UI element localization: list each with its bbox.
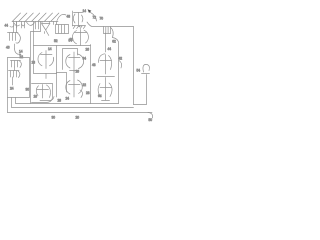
box bottom segment with curl [40,97,54,101]
svg-text:34: 34 [83,57,87,61]
damper S3 rod [42,85,44,99]
foot bar [102,100,110,102]
valve triangle [42,22,50,31]
svg-text:54: 54 [137,69,141,73]
comb C [9,71,20,78]
svg-text:54: 54 [69,39,73,43]
damper S4 left arc [66,81,70,95]
arrow 10 arc [90,12,96,21]
svg-text:72: 72 [93,16,97,20]
wires ceiling to comb A [14,22,17,33]
wire comb A down [14,44,16,49]
svg-text:16: 16 [34,95,38,99]
partition bar [70,70,79,72]
svg-text:62: 62 [112,40,116,44]
damper S0 right arc [84,30,88,43]
comb A above box [8,33,19,41]
ceiling hatch marks [13,13,59,21]
damper S5 bar [100,60,112,62]
wire ceiling to box1 [33,22,35,46]
wire [21,22,23,29]
hanger u-arc [27,22,35,25]
damper S1 left arc [38,53,42,66]
comb box 48 [56,25,69,34]
lead line for label 44 [10,26,14,28]
middle outer wire [31,22,41,104]
wire between combs [14,67,16,71]
hanger arc B [22,24,25,26]
comb C curl [18,71,20,78]
hook arc 42 [119,61,122,69]
svg-text:26: 26 [86,48,90,52]
box U3 [32,84,53,103]
hanger curl A [14,23,20,26]
svg-text:22: 22 [83,83,87,87]
svg-text:18: 18 [32,61,36,65]
damper S0 left arc [72,31,76,44]
damper S4 right arc [78,80,83,94]
box U1 [34,46,57,74]
svg-text:46: 46 [6,46,10,50]
damper S1 bar [41,54,53,56]
svg-text:50: 50 [149,118,153,122]
hook arc 62 [111,28,114,38]
hook arc 28 [80,90,83,98]
corner stub [44,32,46,34]
T bar [142,73,150,75]
comb B curl [20,61,22,68]
damper S6 right arc [109,83,112,97]
right-middle box right edge [113,38,119,104]
wire down to box [105,33,107,52]
damper S6 left arc [98,84,100,98]
damper S3 bar [37,89,49,91]
svg-text:24: 24 [10,87,14,91]
arrow 10 head [88,9,92,13]
svg-text:52: 52 [54,39,58,43]
damper S1 right arc [50,57,54,66]
svg-text:70: 70 [100,17,104,21]
svg-text:44: 44 [5,24,9,28]
bottom main line [8,112,153,114]
anchor bar with hatches [73,26,86,29]
long top wire to right corner [87,22,134,105]
damper S0 rod [80,30,82,46]
damper S4 rod [73,71,75,98]
svg-text:42: 42 [119,57,123,61]
svg-text:30: 30 [26,88,30,92]
hanging comb box on wire [104,27,111,34]
hanging comb ticks [36,22,39,30]
damper S3 right arc [47,85,51,98]
damper S0 bar [75,32,87,34]
anchor pivot blob [79,25,81,27]
left wall wire [7,58,9,113]
comb B [11,61,21,68]
pendulum mass 14 [72,11,74,26]
wire [24,22,26,29]
svg-text:64: 64 [98,94,102,98]
svg-text:28: 28 [58,99,62,103]
svg-text:20: 20 [76,116,80,120]
svg-text:26: 26 [76,70,80,74]
damper S5 right arc [109,56,112,70]
right U vessel [134,75,147,105]
wires to comb box [54,22,57,25]
damper S2 right arc [78,54,84,69]
nested wire 2 [12,98,134,108]
svg-text:14: 14 [83,9,87,13]
svg-text:48: 48 [67,15,71,19]
ceiling ground line [12,21,58,23]
svg-text:28: 28 [86,91,90,95]
damper S4 bar [69,84,81,86]
left box [8,58,30,98]
damper S6 bar [100,87,112,89]
bottom curl 50 [148,113,153,119]
stub below box U1 [45,74,47,79]
top line of middle assembly [57,45,91,47]
svg-text:14: 14 [48,47,52,51]
arc to label 48 [57,14,66,20]
wire [16,22,18,29]
damper S2 left arc [66,55,70,69]
spring hook 54 [143,64,149,72]
base bar [97,76,115,78]
damper S6 rod [105,78,107,101]
damper S5 left arc [99,54,106,63]
right-middle box left edge [90,45,92,104]
inner box U2b [57,73,67,98]
damper S3 left arc [36,86,38,96]
svg-text:24: 24 [66,97,70,101]
svg-text:14: 14 [19,50,23,54]
svg-text:22: 22 [20,55,24,59]
comb A curl [16,33,20,43]
wire down from comb C [12,77,14,85]
svg-text:30: 30 [52,116,56,120]
damper S2 rod [73,52,75,72]
inner box U2 [63,49,78,70]
curl with arrow 46 [15,49,20,54]
right-middle box bottom [91,103,119,105]
damper S1 rod [45,51,47,69]
damper S5 rod [105,55,107,75]
triangle tail wire [46,30,49,36]
damper S2 bar [69,57,81,59]
svg-text:44: 44 [108,47,112,51]
nested wire 3 [16,98,91,104]
svg-text:48: 48 [92,63,96,67]
